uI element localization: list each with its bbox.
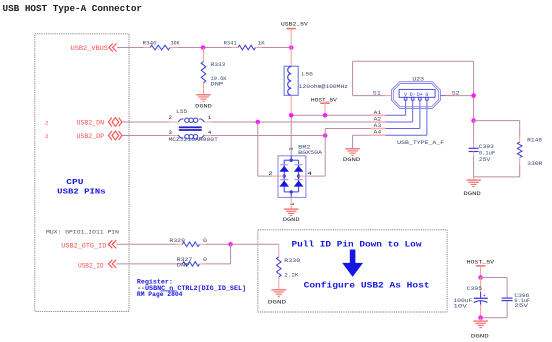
- resistor R340: [150, 45, 170, 50]
- svg-text:BGX50A: BGX50A: [298, 149, 323, 156]
- wire shield loop: [352, 61, 354, 95]
- port USB2_VBUS: [109, 44, 113, 52]
- wire: [473, 121, 475, 143]
- node VBUS/R333 junction: [201, 45, 206, 50]
- svg-text:1: 1: [287, 147, 293, 150]
- svg-text:330R: 330R: [527, 160, 543, 167]
- wire: [203, 83, 205, 95]
- svg-text:R333: R333: [211, 61, 226, 68]
- wire: [278, 277, 280, 290]
- wire BR2 pin4: [324, 136, 326, 177]
- svg-text:DNP: DNP: [211, 81, 224, 88]
- svg-text:USB2_5V: USB2_5V: [281, 21, 309, 28]
- wire to R330: [278, 244, 280, 257]
- node A1 junctions: [289, 113, 294, 118]
- svg-text:USB2_DN: USB2_DN: [77, 119, 105, 126]
- svg-text:2: 2: [169, 115, 172, 121]
- svg-text:DNP: DNP: [177, 261, 191, 268]
- wire: [519, 158, 521, 164]
- resistor R329: [182, 242, 199, 247]
- svg-text:USB2_OTG_ID: USB2_OTG_ID: [61, 242, 106, 249]
- svg-text:R340: R340: [143, 40, 158, 47]
- svg-text:0: 0: [203, 256, 208, 263]
- diode array BR2 BGX50A: [278, 156, 306, 198]
- wire R146 branch: [474, 120, 520, 122]
- wire BR2 pin3 to ground: [290, 197, 292, 209]
- svg-text:R146: R146: [527, 137, 543, 144]
- svg-text:MCZ1210AH900T: MCZ1210AH900T: [169, 136, 219, 143]
- svg-text:25V: 25V: [514, 302, 528, 309]
- svg-text:USB2_DP: USB2_DP: [77, 133, 105, 140]
- svg-text:USB2_ID: USB2_ID: [78, 263, 104, 270]
- svg-text:CPU: CPU: [66, 179, 84, 187]
- wire: [256, 47, 263, 49]
- svg-text:+: +: [483, 293, 486, 299]
- Pull-ID dashed block: [258, 230, 447, 312]
- resistor R341: [232, 47, 239, 49]
- svg-text:Pull ID Pin Down to Low: Pull ID Pin Down to Low: [292, 240, 423, 250]
- wire: [480, 318, 482, 321]
- svg-text:RM Page 2804: RM Page 2804: [137, 291, 183, 298]
- resistor R146: [517, 142, 522, 157]
- svg-text:0: 0: [203, 237, 208, 244]
- wire A2/DN row: [122, 121, 169, 123]
- svg-text:DGND: DGND: [471, 332, 490, 339]
- node cap junction top: [478, 275, 483, 280]
- node S2 junction: [471, 93, 476, 98]
- svg-text:L56: L56: [302, 71, 314, 78]
- arrow down: [342, 250, 363, 277]
- wire: [170, 47, 178, 49]
- capacitor C395: [480, 278, 482, 293]
- svg-text:R329: R329: [169, 237, 185, 244]
- svg-text:120ohm@100MHz: 120ohm@100MHz: [299, 83, 349, 90]
- node DN/BR2 junction: [255, 120, 260, 125]
- capacitor C393: [469, 147, 479, 149]
- wire A4 ground row: [353, 134, 371, 136]
- svg-text:30K: 30K: [171, 40, 180, 47]
- svg-text:USB2_VBUS: USB2_VBUS: [71, 45, 109, 52]
- svg-text:DGND: DGND: [343, 156, 361, 163]
- node OTG/ID junction: [228, 242, 233, 247]
- wire: [200, 263, 206, 265]
- svg-text:USB2 PINs: USB2 PINs: [57, 189, 106, 197]
- node shield/C393 junction: [471, 118, 476, 123]
- svg-text:R341: R341: [224, 40, 237, 47]
- resistor R333: [203, 48, 205, 62]
- svg-text:USB_TYPE_A_F: USB_TYPE_A_F: [397, 139, 445, 146]
- ground DGND bottom right: [473, 320, 488, 322]
- connector pin stubs: [404, 97, 407, 100]
- CPU USB2 PINs dashed block: [35, 34, 129, 312]
- ground DGND under R330: [272, 289, 287, 291]
- svg-text:C395: C395: [467, 285, 483, 292]
- wire A1 HOST_5V rail: [291, 114, 371, 116]
- wire: [473, 152, 475, 158]
- wire BR2 pin2: [257, 122, 259, 176]
- wire DP row: [122, 135, 169, 137]
- ground DGND under C393: [466, 179, 481, 181]
- svg-text:R330: R330: [284, 257, 301, 264]
- svg-text:USB HOST Type-A Connector: USB HOST Type-A Connector: [3, 3, 143, 14]
- ground DGND under A4: [345, 148, 360, 150]
- wire: [480, 305, 482, 318]
- node DP/BR2 junction: [323, 133, 328, 138]
- svg-text:HOST_5V: HOST_5V: [467, 258, 495, 265]
- ground DGND under BR2: [284, 208, 299, 210]
- svg-text:Configure USB2 As Host: Configure USB2 As Host: [304, 281, 430, 291]
- wire: [290, 29, 292, 67]
- wire: [200, 243, 206, 245]
- svg-text:DGND: DGND: [195, 102, 212, 109]
- svg-text:MUX: GPIO1_IO11 PIN: MUX: GPIO1_IO11 PIN: [46, 229, 119, 235]
- capacitor C396 branch: [481, 277, 508, 279]
- wire A3 row with jog: [324, 129, 326, 136]
- wire VBUS row: [117, 47, 144, 49]
- svg-text:2: 2: [45, 133, 49, 140]
- svg-text:DGND: DGND: [283, 216, 300, 223]
- wire L56 to BR2 pin1: [290, 95, 292, 118]
- svg-text:1K: 1K: [258, 40, 266, 47]
- svg-text:1: 1: [208, 115, 211, 121]
- inductor L56: [284, 66, 298, 95]
- wire A4 to ground: [352, 135, 354, 149]
- wire OTG_ID row: [116, 243, 176, 245]
- svg-text:2: 2: [45, 119, 49, 126]
- svg-text:DGND: DGND: [463, 190, 481, 197]
- svg-text:A4: A4: [374, 129, 382, 136]
- node cap junction bottom: [478, 315, 483, 320]
- svg-text:DGND: DGND: [268, 298, 287, 305]
- wire ID row: [116, 263, 176, 265]
- svg-text:L55: L55: [176, 108, 188, 115]
- resistor R330: [277, 257, 282, 277]
- svg-text:10V: 10V: [453, 303, 467, 310]
- svg-text:25V: 25V: [479, 156, 491, 163]
- svg-text:2.2K: 2.2K: [284, 272, 299, 279]
- node USB2_5V junction: [289, 45, 294, 50]
- resistor R327: [182, 262, 199, 267]
- ground DGND under R333: [196, 94, 211, 96]
- diodes in BR2: [280, 164, 288, 166]
